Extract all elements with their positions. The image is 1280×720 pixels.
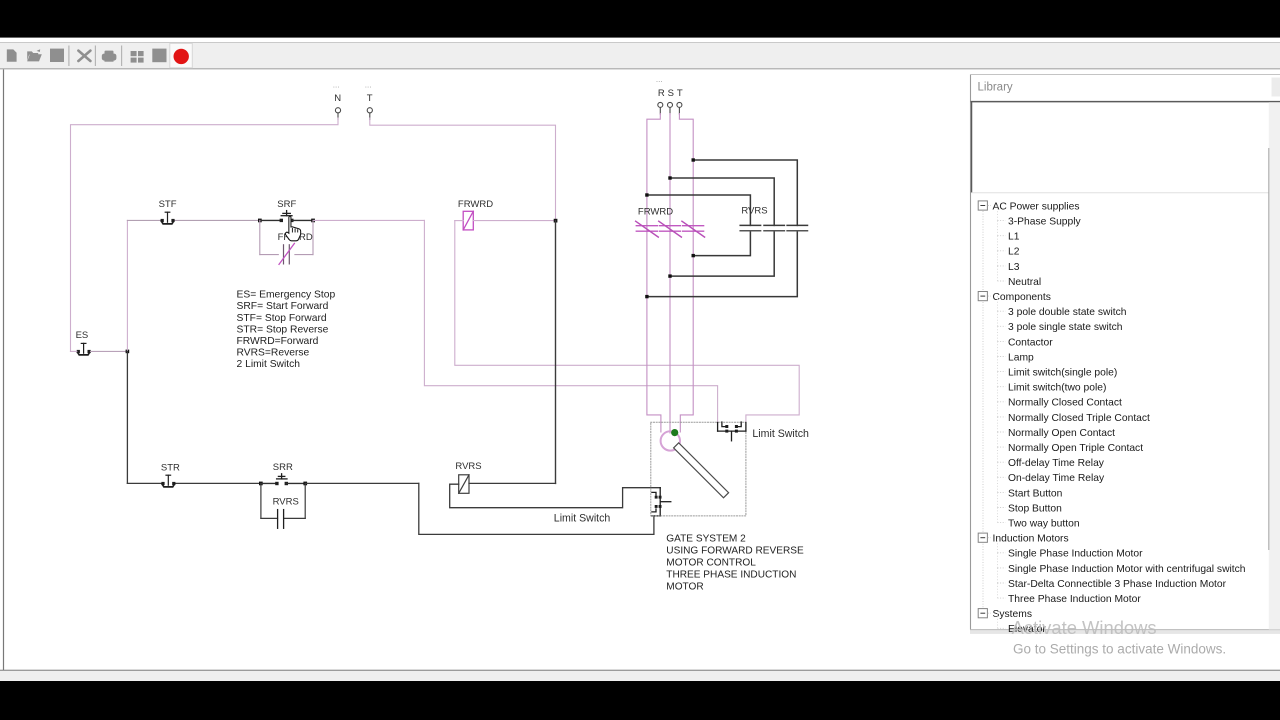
svg-text:Go to Settings to activate Win: Go to Settings to activate Windows.: [1013, 642, 1226, 657]
node T terminal circle: [367, 108, 372, 120]
canvas bottom border: [0, 669, 1280, 671]
toolbar icon: printer: [102, 51, 117, 62]
toolbar icon: open folder: [27, 49, 42, 61]
contact STF (NC push button): [161, 212, 175, 224]
terminal S: [668, 102, 673, 114]
contactor RVRS pole 1: [740, 225, 760, 230]
wire SRR left stub: [261, 482, 277, 484]
svg-text:Stop Button: Stop Button: [1008, 503, 1062, 514]
junction dot SRR right: [303, 482, 307, 486]
wire crossover phase R to right: [647, 195, 751, 256]
svg-text:3-Phase Supply: 3-Phase Supply: [1008, 217, 1082, 228]
mouse cursor hand over SRF: [285, 216, 300, 241]
wire top rail left from N: [71, 118, 339, 351]
junction dot row1 left: [645, 295, 648, 298]
contactor RVRS pole 2: [764, 225, 784, 230]
canvas left border: [3, 69, 5, 670]
motor M circle: [661, 431, 680, 450]
junction dot S row2: [668, 176, 671, 179]
wire left ladder vertical upper (pink): [126, 220, 128, 351]
svg-text:Three Phase Induction Motor: Three Phase Induction Motor: [1008, 594, 1141, 605]
library panel body: [971, 75, 1280, 630]
svg-text:On-delay Time Relay: On-delay Time Relay: [1008, 473, 1105, 484]
svg-text:3 pole single state switch: 3 pole single state switch: [1008, 322, 1123, 333]
toolbar icon: new document: [7, 49, 17, 61]
svg-text:L3: L3: [1008, 262, 1020, 273]
junction dot SRF right: [311, 219, 315, 223]
wire top rail right from T: [370, 118, 556, 221]
svg-text:L1: L1: [1008, 232, 1020, 243]
wire SRF right stub: [292, 219, 313, 221]
svg-text:Components: Components: [993, 292, 1051, 303]
wire pink drop from rung end: [424, 220, 717, 423]
coil FRWRD: [463, 211, 473, 230]
svg-text:Activate Windows: Activate Windows: [1012, 617, 1157, 638]
wire pink drop from coil left: [455, 221, 799, 423]
junction dot SRF left: [258, 219, 262, 223]
toolbar icon: save: [50, 49, 64, 62]
contactor FRWRD pole 3: [682, 221, 705, 237]
svg-text:AC Power supplies: AC Power supplies: [993, 201, 1080, 212]
terminal T: [677, 102, 682, 114]
node N terminal circle: [335, 108, 340, 120]
wire coil FRWRD right pin: [473, 220, 555, 222]
dotted selection box motor: [651, 422, 746, 516]
svg-text:Off-delay Time Relay: Off-delay Time Relay: [1008, 458, 1105, 469]
wire STR rung bottom loop: [419, 483, 654, 534]
contact ES (NC push button): [77, 343, 91, 355]
svg-text:Induction Motors: Induction Motors: [993, 534, 1069, 545]
toolbar background: [0, 43, 1280, 70]
wire crossover phase S: [670, 178, 774, 276]
wire SRF to coil branch: [313, 219, 424, 221]
junction dot SRR left: [259, 482, 263, 486]
wire STR rung: [127, 482, 161, 484]
wire coil FRWRD left pin: [455, 220, 463, 222]
bottom letterbox black bar: [0, 681, 1280, 720]
svg-text:Contactor: Contactor: [1008, 337, 1053, 348]
svg-text:Start Button: Start Button: [1008, 488, 1063, 499]
contact FRWRD aux (NC): [284, 245, 290, 264]
svg-text:Normally Open Contact: Normally Open Contact: [1008, 428, 1115, 439]
wire left ladder vertical lower (black): [126, 351, 128, 483]
gate system text block: [666, 533, 804, 592]
coil RVRS: [459, 475, 469, 494]
contact RVRS aux (NO): [278, 510, 284, 529]
svg-text:Limit switch(two pole): Limit switch(two pole): [1008, 383, 1106, 394]
svg-text:Star-Delta Connectible 3 Phase: Star-Delta Connectible 3 Phase Induction…: [1008, 579, 1227, 590]
wire coil RVRS left pin path: [450, 484, 661, 508]
contactor RVRS pole 3: [787, 225, 807, 230]
junction dot R row3: [645, 193, 648, 196]
wire STR rung to corner: [305, 482, 419, 484]
toolbar icon: blocks: [131, 51, 144, 63]
toolbar record button (active): [170, 43, 193, 67]
svg-text:Lamp: Lamp: [1008, 352, 1034, 363]
svg-text:L2: L2: [1008, 247, 1020, 258]
svg-text:Normally Open Triple Contact: Normally Open Triple Contact: [1008, 443, 1143, 454]
terminal R: [658, 102, 663, 114]
wire ES rung: [71, 350, 77, 352]
motor green dot: [671, 429, 678, 436]
toolbar separator: [94, 46, 96, 67]
contact SRF (NO start button): [280, 211, 294, 222]
svg-text:Library: Library: [978, 82, 1013, 94]
legend text block: [237, 290, 336, 371]
wire coil RVRS right pin: [469, 482, 556, 484]
junction dot T row1: [692, 158, 695, 161]
contact STR (NC push button): [161, 475, 175, 487]
wire SRF left stub: [260, 219, 281, 221]
svg-text:Single Phase Induction Motor w: Single Phase Induction Motor with centri…: [1008, 564, 1246, 575]
junction dot ES rung: [126, 350, 130, 354]
toolbar separator: [68, 46, 70, 67]
junction dot row2 left: [668, 274, 671, 277]
wire RVRS aux branch box: [261, 483, 305, 518]
limit switch LS2 (lower): [652, 488, 671, 516]
toolbar icon: filled square: [152, 49, 166, 63]
svg-text:3 pole double state switch: 3 pole double state switch: [1008, 307, 1127, 318]
wire phase S vertical: [669, 114, 671, 434]
svg-text:Two way button: Two way button: [1008, 519, 1080, 530]
wire phase T vertical: [679, 114, 693, 433]
svg-text:Limit switch(single pole): Limit switch(single pole): [1008, 368, 1117, 379]
svg-text:Single Phase Induction Motor: Single Phase Induction Motor: [1008, 549, 1143, 560]
wire crossover phase T to left: [647, 160, 797, 297]
contactor FRWRD pole 1: [636, 221, 659, 237]
wire black right ladder vertical: [555, 221, 557, 484]
gate arm: [674, 443, 729, 498]
top letterbox black bar: [0, 0, 1280, 38]
contactor FRWRD pole 2: [659, 221, 682, 237]
contact SRR (NO start button): [275, 474, 288, 485]
wire phase R vertical: [647, 114, 661, 433]
status strip above bottom bar: [0, 671, 1280, 681]
toolbar separator: [121, 46, 123, 67]
junction dot coil FRWRD right: [554, 219, 558, 223]
wire STF rung: [127, 219, 161, 221]
library tree: [978, 201, 1246, 635]
svg-text:Neutral: Neutral: [1008, 277, 1041, 288]
wire FRWRD aux branch box: [260, 220, 313, 254]
junction dot row3 right: [692, 254, 695, 257]
svg-text:Normally Closed Triple Contact: Normally Closed Triple Contact: [1008, 413, 1150, 424]
wire SRR right stub: [286, 482, 305, 484]
svg-text:Normally Closed Contact: Normally Closed Contact: [1008, 398, 1122, 409]
toolbar icon: delete X: [78, 51, 90, 61]
limit switch LS1 (upper): [718, 422, 746, 441]
